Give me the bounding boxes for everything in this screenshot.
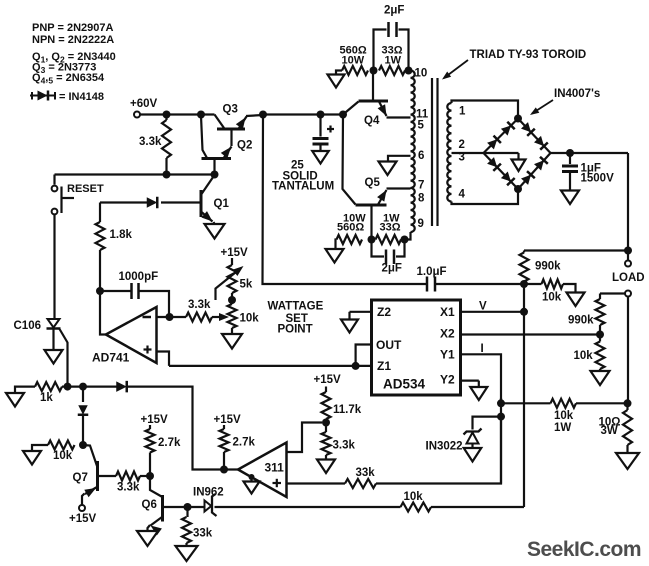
ground 1uF [561,191,579,205]
node rail-Q2C [197,111,205,119]
svg-text:1W: 1W [554,422,571,434]
label +15V Q7 [69,513,97,525]
svg-text:2μF: 2μF [382,263,402,275]
switch RESET contact bottom [52,209,58,215]
svg-text:IN962: IN962 [193,487,224,499]
label 2.7k first [158,437,181,449]
label SET [286,313,308,325]
arrow TRIAD [442,60,468,80]
ground 10k first [567,293,585,307]
wire X2 pin [461,333,601,335]
wire Y1 pin [461,354,502,400]
transistor Q4 [343,71,411,118]
multiplier U3 AD534 [372,300,461,395]
svg-text:OUT: OUT [376,338,402,352]
ground 10k pot [222,334,242,349]
label 10k left [53,450,73,462]
label OUT [376,338,402,352]
wire 1.8k top [100,203,147,223]
ground Y2 [470,387,487,400]
svg-text:3.3k: 3.3k [188,299,211,311]
node Q5 collector [368,236,376,244]
wire D2 to 311 output [127,387,218,470]
svg-text:+60V: +60V [130,98,158,110]
label 10k second [574,350,594,362]
label 3.3k [139,136,162,148]
terminal LOAD 2 [625,291,631,297]
svg-text:NPN = 2N2222A: NPN = 2N2222A [32,34,114,46]
label 990k second [568,315,594,327]
label TRIAD TY-93 TOROID [470,49,587,61]
node Q6-33k [184,503,192,511]
label +60V [130,98,158,110]
capacitor 1000pF [100,283,169,317]
wire 311 output [218,468,238,470]
wire Z2 pin [350,312,372,320]
resistor R 10k left [48,441,75,450]
node minus input [166,313,174,321]
wire 33k to I node [376,420,501,484]
wire tap6 ground [388,156,411,162]
transistor Q2 [201,116,232,175]
SCR C106 [47,319,61,350]
resistor R 33 bottom [376,235,402,244]
wire AD741 output [100,291,106,335]
ground 1k [6,387,35,407]
svg-text:1k: 1k [40,392,53,404]
resistor R 33 top [379,66,405,75]
resistor R 1.8k [96,222,105,250]
capacitor C 2uF top [374,22,409,71]
ground bridge center [484,153,526,171]
node I-10k1W [497,399,505,407]
label 560 bottom [337,213,366,234]
ground 10k left [23,445,48,465]
wire OUT pin [356,345,372,366]
resistor R 990k first [520,251,529,285]
ground 560 top [328,75,345,88]
svg-text:= IN4148: = IN4148 [59,91,104,103]
label 3.3k Q7 [117,482,140,494]
wire X1 pin [461,311,525,313]
svg-text:V: V [479,301,487,313]
node gate [64,383,72,391]
legend line Q1,Q2 = 2N3440 [32,51,116,65]
wire LOAD2 left [600,292,625,294]
node X2 junction [596,331,604,339]
ground 3.3k 311 [317,460,335,474]
resistor R 10ohm 3W [623,403,632,453]
svg-text:RESET: RESET [67,183,104,195]
node bridge top [514,115,522,123]
terminal +60V [134,112,140,118]
diode D3 vertical [78,405,89,415]
potentiometer 5k [228,265,237,300]
node 311 gnd tap [249,474,255,480]
svg-text:8: 8 [418,193,425,205]
label Q6 [142,499,157,511]
svg-text:WATTAGE: WATTAGE [268,301,324,313]
svg-text:TRIAD TY-93 TOROID: TRIAD TY-93 TOROID [470,49,587,61]
node Q4/Q5 base [339,111,347,119]
terminal +15V Q7 [79,505,85,511]
label 10k first [542,292,562,304]
wire left rail [55,173,215,175]
wire IN962 right [215,506,401,508]
svg-text:6: 6 [418,150,424,162]
svg-text:9: 9 [418,218,424,230]
svg-text:3W: 3W [601,425,618,437]
legend line Q3 = 2N3773 [32,62,96,76]
svg-text:Q1: Q1 [214,198,230,210]
svg-text:C106: C106 [14,320,42,332]
svg-text:1.8k: 1.8k [110,229,133,241]
label RESET [67,183,104,195]
svg-text:Y1: Y1 [440,348,455,362]
wire 1.0uF to 990k node [435,283,524,285]
potentiometer 10k [228,300,237,334]
wire 311 plus input [287,482,346,484]
label 1k [40,392,53,404]
transformer core [432,78,438,226]
svg-text:AD741: AD741 [92,351,130,365]
svg-text:2: 2 [459,139,465,151]
label 1uF [581,163,601,175]
label +15V 11.7k [314,374,342,386]
svg-text:I: I [481,343,484,355]
resistor R 33k 311 [345,479,376,488]
label Q1 [214,198,230,210]
resistor R 2.7k second [220,425,229,470]
label Y1 [440,348,455,362]
wire 990k top [524,249,628,251]
label 2uF bottom [382,263,402,275]
label AD534 [383,377,426,392]
wire rail to base node [263,113,343,115]
resistor R 2.7k first [146,425,155,476]
node rail-3.3k [163,111,171,119]
transistor Q5 [343,115,411,240]
svg-text:990k: 990k [535,261,561,273]
svg-text:Z2: Z2 [377,305,391,319]
label POINT [278,324,313,336]
svg-text:+15V: +15V [221,247,249,259]
resistor R 10k 1W [551,399,628,408]
label Z2 [377,305,391,319]
svg-text:Q7: Q7 [73,472,88,484]
label Q3 [223,104,238,116]
ground 560 bottom [326,249,344,263]
label 10k pot [240,313,260,325]
ground Z2 [341,320,358,333]
svg-text:TANTALUM: TANTALUM [272,181,334,193]
wire LOAD lead [627,251,629,261]
label 5k [240,279,253,291]
label 560 top [340,45,367,67]
svg-text:AD534: AD534 [383,377,426,392]
resistor R 3.3k vertical [162,115,171,175]
label tantalum plus [327,126,334,133]
resistor R 560 top [336,66,368,75]
label 1.0uF [417,266,447,278]
node 10k-Q7 [79,441,87,449]
label tap 8 [418,193,425,205]
ground 10ohm [616,453,639,469]
svg-text:990k: 990k [568,315,594,327]
svg-text:4: 4 [459,189,466,201]
label 10k 1W [554,410,574,434]
label 33 top [382,45,403,67]
wire D3 to 10k node [82,415,84,445]
resistor R 3.3k wattage [186,313,212,322]
node Q4 collector [370,67,378,75]
svg-text:PNP = 2N2907A: PNP = 2N2907A [32,22,113,34]
label tap 3 [459,152,465,164]
svg-text:+15V: +15V [69,513,97,525]
wire Z1 long [169,365,372,367]
svg-text:1W: 1W [385,55,402,67]
label 2uF top [384,5,404,17]
svg-text:10: 10 [415,68,428,80]
label 25 [291,160,304,172]
node 1uF tap [566,149,574,157]
svg-text:33Ω: 33Ω [380,222,401,234]
svg-text:5k: 5k [240,279,253,291]
svg-text:X1: X1 [440,305,455,319]
svg-text:+15V: +15V [141,414,169,426]
wire AD741 plus input [157,352,170,366]
wire 1k to gate node [62,386,117,388]
wire +60V rail [140,113,215,115]
label 11.7k [333,404,362,416]
node integrator [96,287,104,295]
label 1.8k [110,229,133,241]
wire C106 gate [60,329,68,387]
label LOAD [612,272,645,284]
wire IN3022 link [473,417,502,430]
label tap 11 [416,109,429,121]
resistor R 3.3k Q7 [116,472,140,481]
label Q2 [237,140,252,152]
svg-text:2.7k: 2.7k [233,437,256,449]
capacitor C 1.0uF [427,277,435,292]
label X1 [440,305,455,319]
label C106 [14,320,42,332]
label TANTALUM [272,181,334,193]
label Q7 [73,472,88,484]
label 33k Q6 [193,528,213,540]
node 311 out [220,466,228,474]
node 11.7k-3.3k [322,419,330,427]
comparator U2 311 [238,443,287,498]
capacitor C 1uF 1500V [562,153,578,191]
op-amp U1 AD741 [106,307,157,363]
zener D IN962 [205,494,217,516]
ground Q1 emitter [205,224,225,239]
svg-text:Z1: Z1 [377,359,391,373]
svg-text:Q3: Q3 [223,104,238,116]
legend diode = IN4148 [30,91,104,104]
svg-text:1000pF: 1000pF [119,271,159,283]
switch RESET contact top [52,186,58,192]
node Q3 emitter rail [259,111,267,119]
node 33 bottom right [401,236,409,244]
node X1 [520,308,528,316]
wire Q7 base [98,475,117,477]
ground 33k Q6 [176,546,198,561]
svg-text:POINT: POINT [278,324,313,336]
svg-text:10k: 10k [554,410,574,422]
label tap 9 [418,218,424,230]
label Y2 [440,373,455,387]
ground tantalum [312,151,329,164]
label tap 7 [418,180,424,192]
resistor R 10k bottom [401,503,432,512]
node 990k-10k [520,280,528,288]
wire V feedback vertical [263,115,428,285]
svg-text:Q2: Q2 [237,140,252,152]
svg-text:1: 1 [459,106,466,118]
transistor Q1 [201,175,215,224]
wire branch down [82,387,84,402]
node Q1 collector [211,171,219,179]
diode D1 to Q1 base [147,197,158,209]
transistor Q3 [215,115,264,147]
label 10k bottom [404,491,424,503]
legend line PNP = 2N2907A [32,22,113,34]
wire to winding top [409,69,411,71]
wire Q1 base [161,201,201,203]
svg-text:LOAD: LOAD [612,272,645,284]
node 10ohm [624,399,632,407]
svg-text:IN3022: IN3022 [426,441,463,453]
ground 10k second [591,371,610,385]
svg-text:Q6: Q6 [142,499,157,511]
label +15V pot [221,247,249,259]
bridge rectifier IN4007s [484,119,551,190]
label V [479,301,487,313]
svg-text:3.3k: 3.3k [333,440,356,452]
resistor R 1k [35,382,62,391]
wire bridge output [551,152,629,154]
svg-text:7: 7 [418,180,424,192]
label AD741 [92,351,130,365]
arrow IN4007 [530,100,553,115]
transistor Q7 [82,445,98,505]
svg-text:SeekIC.com: SeekIC.com [527,538,641,561]
wire I node vertical [500,398,502,484]
svg-text:+15V: +15V [314,374,342,386]
node OUT-Z1 [352,362,360,370]
resistor R 3.3k 311 [322,423,331,460]
svg-text:33k: 33k [193,528,213,540]
label +15V second [214,414,242,426]
svg-text:10k: 10k [53,450,73,462]
label tap 4 [459,189,466,201]
svg-text:1500V: 1500V [581,173,615,185]
wire Y2 pin [461,381,479,387]
svg-text:10k: 10k [240,313,260,325]
wire V vertical [431,284,524,507]
node 2.7k-Q6 [146,472,154,480]
label +15V first [141,414,169,426]
node bridge bottom [514,185,522,193]
resistor R 10k to gnd first [524,280,576,293]
label 33 bottom [380,213,401,234]
inductor secondary winding [447,103,451,201]
wire winding bottom [405,232,411,240]
ground IN3022 [464,448,482,462]
label Q5 [365,177,381,189]
svg-text:10W: 10W [342,55,365,67]
legend line Q4,5 = 2N6354 [32,72,105,86]
svg-text:311: 311 [265,461,285,475]
node diode branch [79,383,87,391]
svg-text:2.7k: 2.7k [158,437,181,449]
capacitor C 2uF bottom [372,240,405,265]
resistor R 10k second [596,335,605,372]
resistor R 560 bottom [336,235,363,249]
label 33k 311 [356,467,376,479]
svg-text:X2: X2 [440,327,455,341]
node tantalum tap [317,111,325,119]
label IN3022 [426,441,463,453]
node LOAD top [624,247,632,255]
legend line NPN = 2N2222A [32,34,114,46]
wire secondary bottom [452,189,519,204]
svg-text:560Ω: 560Ω [337,222,364,234]
svg-text:1.0μF: 1.0μF [417,266,447,278]
ground 311 [244,477,260,494]
label IN962 [193,487,224,499]
switch RESET lever [62,187,75,214]
wire reset to C106 [53,214,55,319]
label 10ohm 3W [599,417,621,438]
label tap 1 [459,106,466,118]
zener D IN3022 [464,429,482,449]
label 2.7k second [233,437,256,449]
svg-text:Q4: Q4 [364,115,380,127]
svg-text:33k: 33k [356,467,376,479]
wire LOAD2 down [627,297,629,404]
label WATTAGE [268,301,324,313]
svg-text:11.7k: 11.7k [333,404,362,416]
node I-IN3022 [497,413,505,421]
ground C106 cathode [45,350,63,364]
label tap 2 [459,139,465,151]
svg-text:10k: 10k [404,491,424,503]
resistor R 990k second [596,294,605,335]
svg-text:+15V: +15V [214,414,242,426]
label 3.3k 311 [333,440,356,452]
wire 1.8k bottom [99,250,101,291]
wire 3.3k to pot + wiper arrow [212,313,229,321]
svg-text:IN4007's: IN4007's [554,88,600,100]
label 1500V [581,173,615,185]
node 3.3k bottom [163,171,171,179]
label Q4 [364,115,380,127]
svg-text:5: 5 [418,120,425,132]
svg-text:Q5: Q5 [365,177,381,189]
ground tap6 [379,162,397,176]
label 311 [265,461,285,475]
svg-text:3: 3 [459,152,465,164]
node 33 top right [405,67,413,75]
capacitor C tantalum [313,115,329,152]
svg-text:3.3k: 3.3k [139,136,162,148]
wire rail to reset [53,175,55,185]
svg-text:2μF: 2μF [384,5,404,17]
